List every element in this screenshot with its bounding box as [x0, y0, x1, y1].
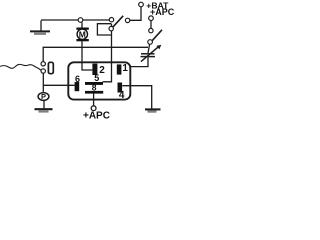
svg-text:2: 2	[99, 65, 105, 76]
svg-text:6: 6	[75, 74, 80, 84]
svg-text:P: P	[41, 92, 46, 101]
svg-text:4: 4	[119, 90, 125, 101]
svg-text:8: 8	[92, 83, 97, 93]
svg-text:M: M	[79, 29, 86, 39]
svg-text:+APC: +APC	[83, 111, 110, 120]
svg-text:+APC: +APC	[150, 7, 175, 17]
svg-text:1: 1	[122, 63, 128, 74]
